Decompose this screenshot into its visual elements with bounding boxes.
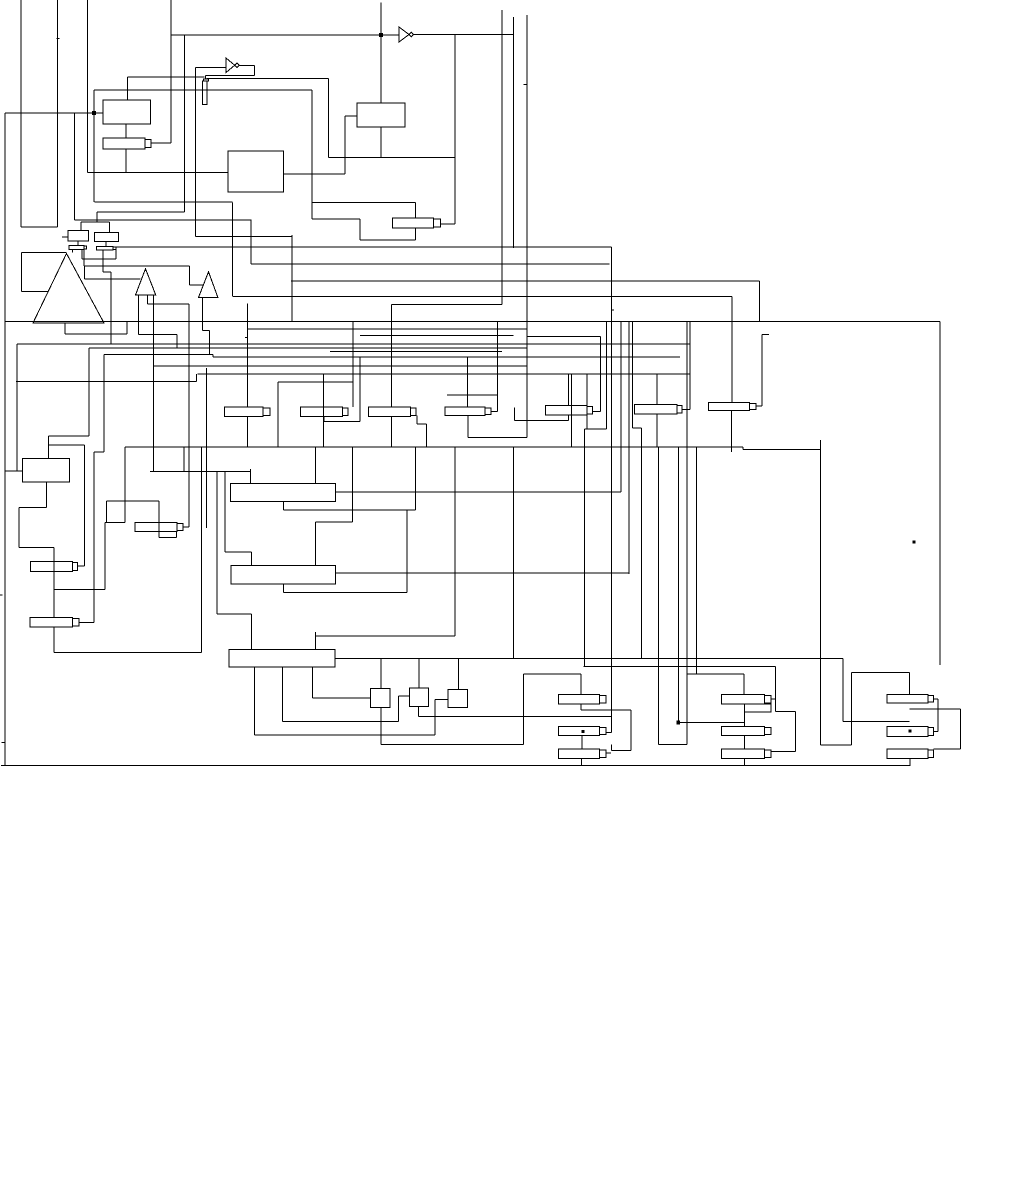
wire bus y247 long: [116, 246, 611, 248]
wire K1 bracket: [581, 709, 631, 711]
wire RD top pin: [414, 203, 416, 219]
wire box B3 top pin: [250, 552, 252, 566]
wire left border: [4, 113, 6, 766]
wire x398 riser: [398, 696, 400, 722]
buffer A3: [199, 272, 218, 298]
wire U2 right out: [284, 173, 345, 175]
wire A3 ped: [202, 298, 204, 331]
wire into A2: [84, 278, 140, 280]
wire E2 bottom pin: [323, 416, 325, 421]
wire x176 drop: [176, 334, 178, 348]
wire x83.7 drop: [83, 249, 85, 266]
wire R1 out: [151, 142, 171, 144]
wire E3 cap jog b: [417, 423, 427, 425]
wire y722 link: [678, 722, 744, 724]
resistor R1: [103, 138, 151, 149]
wire A1 loop bottom: [21, 290, 48, 292]
wire E3 bottom pin: [391, 416, 393, 447]
resistor R3: [69, 246, 87, 250]
wire E2 cap riser a: [352, 322, 354, 407]
wire U1 bottom pin: [125, 124, 127, 138]
wire R7 top pin: [53, 617, 55, 619]
wire MC left: [686, 322, 688, 745]
box B4: [229, 650, 335, 668]
wire K1 bracket R: [630, 710, 632, 751]
wire G2 out right: [239, 64, 254, 66]
wire bus y236: [195, 235, 292, 237]
wire x611 tick: [611, 745, 613, 751]
wire V x216 drop: [216, 471, 218, 614]
wire into box U1: [5, 112, 103, 114]
wire bracket drop L: [80, 222, 82, 231]
wire x843 drop: [842, 659, 844, 722]
dot K1b: [582, 730, 584, 732]
wire E5 cap tick: [593, 410, 601, 412]
junction node n1: [92, 111, 95, 114]
box U2: [228, 151, 284, 192]
relay K3c: [887, 749, 934, 759]
box U4: [68, 231, 89, 241]
wire B4 pin x315: [314, 632, 316, 650]
wire bus y335: [360, 335, 514, 337]
wire x359 lower: [359, 357, 361, 421]
wire bus y658: [335, 658, 843, 660]
wire K2c bottom: [744, 758, 746, 765]
wire B3 right out: [336, 572, 629, 574]
wire y157 link: [329, 157, 456, 159]
wire G1 output: [414, 34, 514, 36]
wire U5 pin: [105, 241, 107, 246]
wire y708 link: [909, 708, 960, 710]
wire U4 pin: [77, 241, 79, 246]
wire into S1: [313, 697, 371, 699]
wire sq2 top pin: [418, 659, 420, 688]
wire V x125: [124, 447, 126, 523]
wire y435 link: [48, 435, 88, 437]
wire y748 link: [934, 748, 961, 750]
tick at left edge: [0, 594, 3, 596]
wire y522 link: [105, 522, 125, 524]
wire V x587 drop: [586, 374, 588, 429]
wire V x696 drop: [695, 447, 697, 674]
relay K3a: [887, 695, 934, 704]
wire V x820 long: [820, 440, 822, 745]
wire y202b link: [312, 202, 415, 204]
wire B2 pin x278: [277, 382, 279, 447]
wire E7 bottom pin: [730, 411, 732, 453]
wire B2 right out: [336, 491, 621, 493]
resistor R6: [135, 523, 183, 532]
resistor E5: [545, 406, 592, 416]
wire y507 link: [19, 507, 47, 509]
wire E7 top pin: [731, 297, 733, 403]
wire V inverter2 input drop: [194, 68, 196, 237]
wire G2 input: [195, 67, 226, 69]
wire E5 right leg: [567, 415, 569, 421]
wire y77 to R2 top: [128, 76, 205, 78]
wire E6 top pin: [656, 374, 658, 405]
wire A2 right drop: [153, 295, 155, 471]
tick on col B: [57, 38, 60, 40]
wire E6 cap link: [682, 408, 690, 410]
wire y240 step: [360, 239, 416, 241]
wire E5 top pin: [568, 374, 570, 406]
wire V x251 upper: [250, 220, 252, 264]
wire K2 b-c link: [744, 736, 746, 749]
wire K3b cap tick: [934, 730, 939, 732]
wire sq1 top pin: [380, 659, 382, 689]
wire R3 down: [81, 249, 83, 259]
wire V x606 drop: [605, 322, 607, 429]
wire y428 jog: [633, 427, 642, 429]
junction node n2: [379, 33, 382, 36]
wire MC right drop: [775, 666, 777, 711]
wire bus y366: [154, 365, 527, 367]
wire B4 pin b: [282, 667, 284, 722]
wire MC top: [687, 673, 744, 675]
wire bus y296: [233, 296, 732, 298]
wire V x206 drop: [205, 368, 207, 528]
tick at x245: [245, 336, 248, 338]
wire bus y381: [16, 380, 196, 382]
wire K1c bottom: [580, 758, 582, 765]
relay K2b: [722, 726, 771, 735]
wire bracket y222: [81, 221, 110, 223]
wire RD bottom pin: [414, 228, 416, 240]
box U5: [95, 232, 119, 241]
wire A1 out drop: [64, 323, 66, 334]
wire V x352 drop: [351, 447, 353, 522]
wire y613 link: [217, 613, 252, 615]
wire y395 link: [447, 394, 497, 396]
wire R1 to bottom bus: [125, 149, 127, 173]
wire V x502: [501, 10, 503, 305]
wire bus y351: [330, 350, 502, 352]
wire bottom bus: [1, 765, 911, 767]
wire y336 link: [527, 335, 601, 337]
relay K1b: [558, 726, 606, 735]
wire R6 out: [183, 526, 189, 528]
wire LC top: [523, 673, 581, 675]
wire bus y666: [583, 665, 775, 667]
wire riser x127: [126, 322, 128, 335]
wire V x247 to E1: [246, 303, 248, 406]
resistor R7: [30, 618, 79, 628]
resistor E6: [635, 405, 683, 414]
wire V x583 drop: [584, 429, 586, 667]
resistor E7: [708, 403, 756, 411]
wire y218 step: [312, 218, 360, 220]
buffer A2: [136, 269, 156, 295]
wire V x513 upper: [513, 17, 515, 248]
wire B3 top pin: [314, 522, 316, 566]
wire y735 link: [255, 734, 435, 736]
inverter G1: [399, 27, 414, 42]
wire x960 drop: [960, 709, 962, 749]
wire RC top: [851, 672, 909, 674]
wire box B2 top pin: [250, 469, 252, 483]
wire A1 apex left: [21, 252, 66, 254]
wire V x571 drop: [570, 374, 572, 447]
wire R7 bottom pin: [53, 627, 55, 653]
wire K3a out: [934, 698, 939, 700]
wire E3 top pin: [391, 305, 393, 408]
wire A3 step2: [209, 330, 211, 354]
wire V x105: [104, 523, 106, 590]
wire bracket drop R: [109, 222, 111, 232]
wire V x201 drop: [200, 447, 202, 653]
wire V x153 lower: [153, 296, 155, 471]
wire y547 link: [19, 547, 54, 549]
wire y721 link: [283, 721, 399, 723]
wire B2 pin x315: [314, 447, 316, 483]
wire V x106: [105, 501, 107, 523]
resistor E4: [445, 407, 491, 416]
wire x344 up: [344, 116, 346, 174]
wire y721b link: [843, 720, 909, 722]
wire jog x743: [742, 447, 744, 450]
wire E7 cap tick: [756, 405, 762, 407]
wire net y35: [171, 34, 399, 36]
wire V x527: [526, 15, 528, 438]
wire y522b link: [315, 521, 352, 523]
relay K2a underbar: [745, 704, 772, 712]
resistor RD: [392, 218, 440, 228]
wire V x232: [231, 202, 233, 296]
relay K2c: [722, 749, 771, 759]
wire y744b link: [658, 744, 687, 746]
relay K1a: [558, 695, 606, 704]
wire E5 bracket: [515, 420, 569, 422]
wire sq3 top pin: [458, 659, 460, 690]
wire y552 link: [225, 551, 251, 553]
wire B4 pin c: [254, 667, 256, 735]
relay K2a: [722, 695, 771, 704]
wire V x940 drop: [939, 322, 941, 666]
wire bus y220: [74, 219, 251, 221]
wire stub into U4: [62, 236, 68, 238]
wire V x225 drop: [224, 471, 226, 552]
wire RC left: [850, 673, 852, 746]
resistor R2 vertical: [203, 81, 208, 105]
box B3: [231, 566, 336, 584]
wire B1 top pin: [47, 436, 49, 459]
wire E4 top pin: [467, 357, 469, 407]
wire V x658 long: [657, 447, 659, 745]
wire y716 link: [419, 715, 612, 717]
wire bus y354: [104, 354, 213, 356]
wire V x762: [761, 335, 763, 407]
wire y745 link: [821, 744, 852, 746]
op-amp A1: [33, 254, 104, 324]
dot stray: [913, 541, 915, 543]
wire V x74: [73, 113, 75, 220]
wire into S3: [435, 699, 448, 701]
wire V x84 drop3: [83, 445, 85, 566]
wire y266 link: [84, 265, 190, 267]
resistor E3: [369, 407, 417, 416]
wire E1 bottom pin: [246, 417, 248, 448]
wire E4 cap tick: [491, 411, 497, 413]
wire x189 drop: [188, 266, 190, 285]
wire E5 left pin: [514, 408, 516, 421]
resistor R4: [96, 246, 116, 249]
inverter G2: [226, 58, 239, 73]
wire A1 out y334: [65, 333, 127, 335]
wire RD out: [440, 223, 455, 225]
wire x188.9 long: [188, 304, 190, 527]
wire S1 bottom pin: [380, 708, 382, 745]
wire A2 ped R: [146, 295, 148, 304]
wire into R2 cap: [204, 76, 206, 79]
wire V col E: [184, 35, 186, 212]
wire into S2: [399, 695, 410, 697]
wire x938 drop: [937, 699, 939, 732]
wire jog x196: [195, 374, 197, 382]
wire bus y357: [213, 356, 680, 358]
wire B3 underbar L: [283, 584, 285, 593]
wire V left col B: [57, 0, 59, 227]
wire V x158: [158, 501, 160, 538]
wire A2 ped L: [138, 295, 140, 334]
box S3: [448, 690, 467, 708]
wire y304 link: [392, 304, 503, 306]
wire y334.5 stub: [762, 334, 769, 336]
wire K1b cap tick: [606, 732, 612, 734]
wire V x641 drop: [641, 428, 643, 659]
wire bus y90: [94, 89, 312, 91]
wire x434 riser: [434, 700, 436, 736]
wire y428b jog: [585, 428, 607, 430]
wire K1a-b bracket L: [580, 704, 582, 710]
wire bus y344: [17, 343, 690, 345]
wire y258 link: [82, 258, 116, 260]
wire V x415 drop: [415, 447, 417, 510]
wire RC drop: [908, 673, 910, 695]
wire LC left: [522, 674, 524, 745]
wire G2 loop back: [205, 75, 254, 77]
resistor E1: [224, 407, 269, 417]
wire V left col A: [20, 0, 22, 227]
wire y652 link: [54, 652, 202, 654]
wire V x17: [16, 344, 18, 471]
wire box B4 top pin a: [250, 614, 252, 650]
wire bus y281: [291, 280, 760, 282]
wire bus y328: [248, 328, 527, 330]
wire bus y373: [197, 373, 690, 375]
wire V x94: [93, 90, 95, 202]
box B1: [23, 458, 70, 482]
wire V x53 upper: [53, 548, 55, 618]
wire x795 drop: [795, 711, 797, 751]
box U3: [357, 103, 405, 127]
wire V x689 link: [689, 322, 691, 410]
wire R4 down b: [110, 272, 112, 344]
wire V x93 long: [93, 452, 95, 623]
wire y750 link: [612, 750, 631, 752]
wire box B1 bottom pin: [45, 482, 47, 508]
wire x744 stub: [744, 723, 746, 727]
wire V x620 drop: [620, 322, 622, 493]
box S2: [409, 688, 428, 707]
wire U3 bottom pin: [380, 127, 382, 158]
wire MC drop: [743, 674, 745, 695]
wire V x678 drop: [677, 447, 679, 723]
wire B2 underbar: [284, 509, 416, 511]
wire G2 out down: [253, 65, 255, 75]
wire y437 link: [468, 437, 527, 439]
wire y711 link: [776, 710, 796, 712]
wire V x292: [291, 235, 293, 322]
wire V x628 drop: [628, 322, 630, 574]
wire x84 drop2: [83, 266, 85, 279]
wire R5 out: [78, 565, 85, 567]
wire bus y202: [95, 201, 233, 203]
wire S2 bottom pin: [418, 706, 420, 716]
wire x312 drop: [311, 90, 313, 219]
capacitor C1 top plate: [204, 79, 209, 81]
wire V x184 lower: [183, 447, 185, 471]
wire V x328 drop: [328, 79, 330, 158]
resistor E2: [301, 407, 349, 416]
wire V x323 drop: [323, 374, 325, 447]
wire K1 b-c link: [581, 736, 583, 749]
relay K1c: [558, 749, 606, 759]
wire B3 underbar: [284, 592, 407, 594]
wire bus y264: [251, 263, 609, 265]
wire V col D: [170, 0, 172, 143]
wire V x103 drop: [103, 355, 105, 452]
dot K3b: [909, 730, 911, 732]
wire B2 underbar L: [283, 501, 285, 510]
wire bus y321: [5, 321, 940, 323]
wire U3 top pin: [380, 3, 382, 104]
wire V x406 drop: [406, 510, 408, 593]
wire R4 down a: [102, 250, 104, 272]
wire bus y212: [97, 211, 185, 213]
wire LC drop: [580, 674, 582, 695]
wire K3c bottom: [909, 758, 911, 765]
wire K2a out: [771, 698, 776, 700]
wire V col C: [87, 0, 89, 173]
wire top-left join: [21, 226, 58, 228]
wire K2 a-b link: [744, 712, 746, 726]
wire V x454 drop: [454, 447, 456, 636]
wire K1c cap tick: [606, 752, 611, 754]
wire bus y381b: [278, 381, 353, 383]
wire E6 bottom pin: [656, 414, 658, 447]
wire R4 down jog: [103, 271, 111, 273]
wire bus y447: [125, 446, 743, 448]
wire B4 pin a: [312, 667, 314, 698]
wire R7 out: [79, 622, 94, 624]
wire V x759 drop: [759, 281, 761, 322]
wire y744 link: [381, 744, 523, 746]
box U1: [103, 100, 151, 124]
relay K3b: [887, 726, 934, 736]
wire R3 to apex wire: [71, 249, 73, 252]
wire bus y348: [89, 347, 527, 349]
wire A2 ped out: [147, 303, 189, 305]
wire V x611 long: [610, 247, 612, 733]
wire into B1: [5, 470, 23, 472]
wire into box U3: [345, 115, 357, 117]
wire U1 top pin: [127, 77, 129, 100]
wire A1 loop left: [20, 253, 22, 292]
wire x359 step: [359, 219, 361, 240]
box S1: [371, 689, 391, 708]
wire y285 to T2: [189, 284, 203, 286]
